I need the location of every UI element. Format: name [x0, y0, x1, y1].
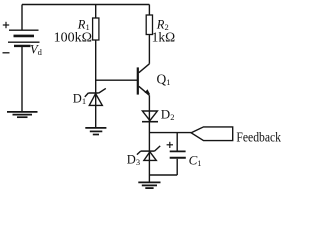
ground (below D1) — [85, 128, 106, 135]
svg-text:D1: D1 — [73, 91, 86, 106]
label D1 — [73, 91, 86, 106]
zener diode D1 — [85, 88, 106, 105]
svg-text:1kΩ: 1kΩ — [152, 30, 176, 45]
zener diode D3 — [137, 146, 160, 161]
svg-text:Vd: Vd — [30, 42, 43, 57]
label 100kOhm — [54, 31, 92, 46]
label C1 — [189, 152, 202, 168]
svg-text:100kΩ: 100kΩ — [54, 31, 92, 46]
label D3 — [127, 153, 140, 168]
label R2 — [156, 18, 169, 32]
resistor R2 — [146, 15, 152, 35]
wire battery top lead — [21, 5, 23, 30]
label R1 — [77, 18, 90, 32]
ground (bottom, below D3) — [138, 182, 160, 188]
transistor Q1 — [138, 64, 150, 96]
ground (left, below battery) — [7, 112, 38, 117]
svg-text:C1: C1 — [189, 152, 202, 168]
wire collector lead — [148, 35, 150, 64]
battery plus sign — [3, 22, 9, 28]
wire R1 bottom to D1 to ground — [95, 40, 97, 127]
wire feedback — [149, 132, 191, 134]
wire C1 top lead — [176, 133, 178, 151]
label Q1 — [157, 72, 171, 88]
label Feedback — [236, 130, 281, 145]
label 1kOhm — [152, 30, 176, 45]
svg-text:Q1: Q1 — [157, 72, 171, 88]
wire battery bottom lead — [21, 47, 23, 112]
svg-text:D2: D2 — [161, 106, 175, 122]
battery Va — [8, 30, 40, 46]
capacitor C1 — [170, 151, 186, 157]
wire emitter / D2 / D3 vertical — [148, 95, 150, 182]
wire C1 bottom lead — [176, 159, 178, 175]
svg-text:D3: D3 — [127, 153, 140, 168]
diode D2 — [142, 111, 158, 122]
C1 plus sign — [167, 142, 173, 148]
label Vd — [30, 42, 43, 57]
resistor R1 — [93, 18, 99, 40]
svg-text:Feedback: Feedback — [236, 130, 281, 145]
wire R1 top lead — [95, 5, 97, 19]
wire base — [96, 79, 137, 81]
label D2 — [161, 106, 175, 122]
battery minus sign — [3, 52, 10, 54]
wire bottom horizontal — [149, 174, 177, 176]
wire R2 top lead — [148, 5, 150, 16]
wire top — [22, 4, 149, 6]
feedback tag — [191, 127, 233, 141]
